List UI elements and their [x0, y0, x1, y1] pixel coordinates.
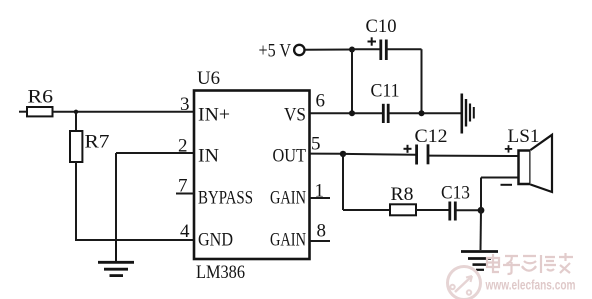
wire C13 to node [456, 209, 481, 211]
wire node to C12 [343, 153, 416, 156]
chassis ground (right of VS rail, sideways) [462, 94, 474, 134]
svg-text:+5 V: +5 V [259, 41, 292, 62]
svg-text:GAIN: GAIN [270, 188, 306, 209]
loudspeaker LS1 [519, 135, 553, 192]
node +5V junction [349, 47, 355, 53]
resistor R8 [390, 204, 416, 215]
svg-text:R8: R8 [391, 184, 414, 205]
wire corner to R8 [343, 209, 390, 211]
wire bottom rail to pin 4 (GND) [75, 239, 194, 241]
wire node down to ground [480, 210, 483, 250]
polarity + of LS1 [505, 145, 512, 152]
wire pin 7 stub (BYPASS) [176, 193, 194, 195]
polarity + of C12 [404, 145, 412, 153]
svg-text:6: 6 [316, 91, 326, 112]
svg-text:GAIN: GAIN [270, 230, 306, 251]
svg-text:OUT: OUT [273, 146, 307, 167]
svg-text:R6: R6 [28, 87, 54, 108]
svg-text:3: 3 [180, 94, 190, 115]
wire junction down to R7 [75, 112, 77, 131]
capacitor C10 [381, 40, 387, 61]
wire pin 5 (OUT) to node [310, 153, 344, 155]
svg-text:VS: VS [284, 105, 306, 126]
watermark chinese characters [487, 253, 573, 274]
ground (bottom-left) [98, 240, 134, 276]
wire pin 6 (VS) to C11 [310, 112, 383, 114]
capacitor C12 [417, 144, 428, 164]
svg-text:U6: U6 [197, 68, 220, 89]
svg-text:C10: C10 [366, 16, 397, 37]
wire +5V node down to VS rail [351, 50, 353, 114]
svg-text:IN+: IN+ [198, 105, 230, 126]
svg-text:C13: C13 [441, 183, 470, 204]
svg-text:2: 2 [178, 136, 188, 157]
watermark logo circle [448, 267, 481, 299]
wire down from pin 2 route to bottom rail [115, 153, 117, 240]
wire R8 to C13 [416, 209, 449, 211]
polarity - of LS1 [501, 184, 513, 186]
svg-text:8: 8 [317, 221, 327, 242]
node junction R6/R7 [74, 110, 78, 114]
resistor R6 [27, 107, 53, 116]
svg-text:5: 5 [311, 134, 321, 155]
svg-text:IN: IN [198, 146, 219, 167]
wire to speaker - terminal [481, 177, 519, 179]
wire C12 to speaker + [429, 155, 519, 157]
wire C11 to chassis ground [390, 112, 461, 114]
node C10 branch / VS rail [419, 110, 425, 116]
svg-text:LS1: LS1 [508, 126, 540, 147]
wire input stub left of R6 [19, 111, 27, 113]
resistor R7 [70, 131, 82, 162]
wire C10 to right corner [387, 48, 422, 50]
terminal circle +5V [294, 45, 304, 55]
svg-text:C11: C11 [371, 81, 400, 102]
svg-text:R7: R7 [85, 132, 110, 153]
wire pin 2 (IN) to left [116, 152, 194, 154]
node VS / +5V branch [349, 110, 355, 116]
wire pin 1 stub (GAIN) [310, 197, 331, 199]
capacitor C11 [383, 104, 388, 123]
wire pin 8 stub (GAIN) [310, 240, 331, 242]
wire node up to speaker - [480, 178, 482, 211]
ground (bottom-right) [461, 252, 498, 270]
svg-text:GND: GND [198, 230, 233, 251]
wire R6 to pin 3 (IN+) [53, 111, 195, 113]
capacitor C13 [450, 202, 456, 221]
node OUT junction [340, 151, 346, 157]
wire R7 down to bottom rail [75, 162, 77, 240]
svg-text:4: 4 [180, 221, 190, 242]
op-amp U6 (LM386 IC body) [194, 91, 310, 260]
wire OUT node down to R8 line [342, 154, 344, 210]
polarity + of C10 [368, 37, 377, 45]
node speaker-/C13/ground junction [478, 207, 485, 214]
svg-text:C12: C12 [415, 126, 448, 147]
wire right corner down to VS rail [421, 49, 423, 113]
svg-text:www.elecfans.com: www.elecfans.com [485, 278, 576, 293]
svg-text:LM386: LM386 [196, 262, 245, 283]
svg-text:BYPASS: BYPASS [198, 188, 253, 209]
wire node to C10 [352, 48, 380, 50]
wire +5V terminal to node [306, 49, 353, 51]
